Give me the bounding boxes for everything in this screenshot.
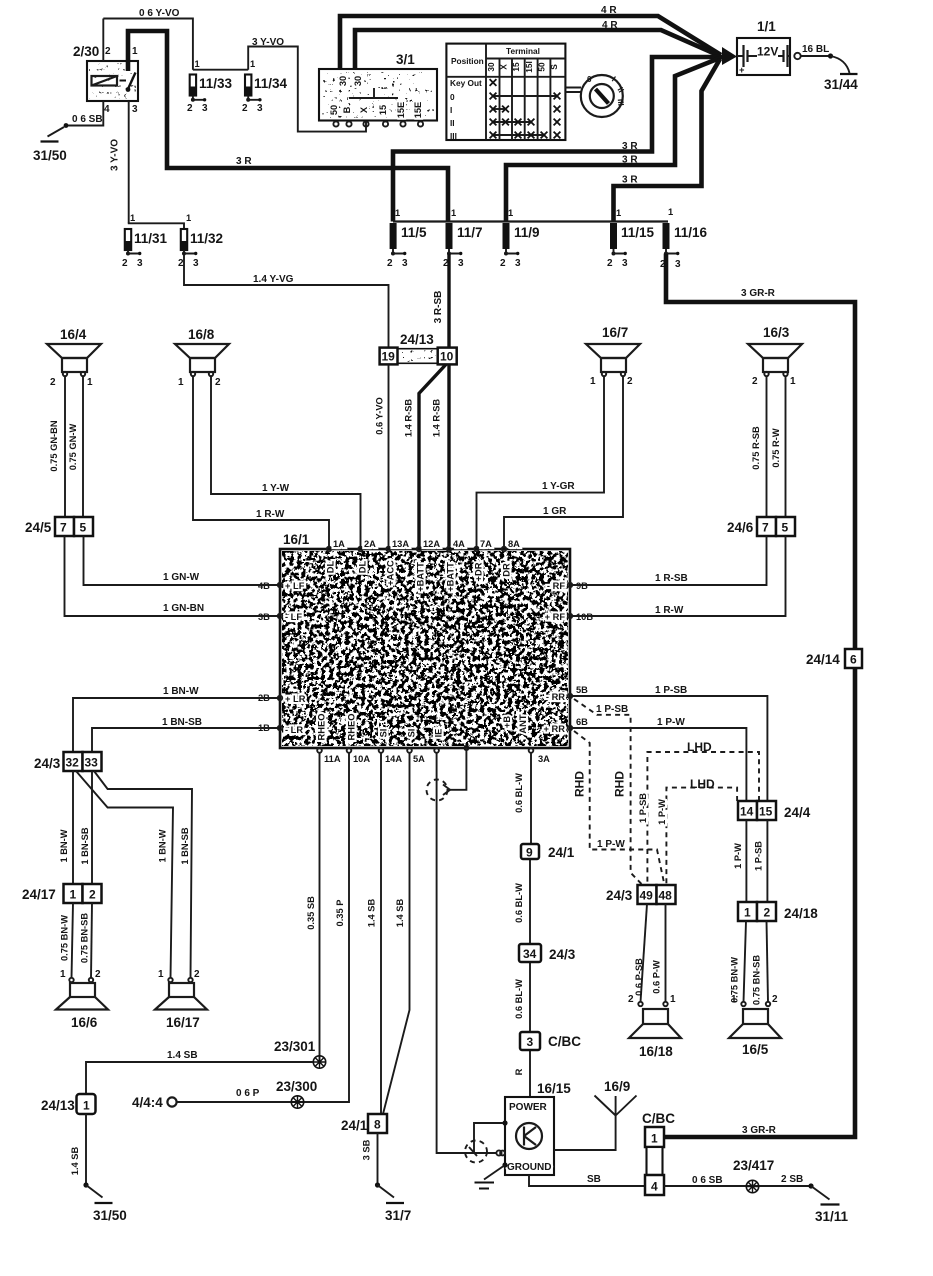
svg-text:1: 1	[731, 994, 737, 1005]
wire aux to power unit	[437, 753, 497, 1153]
svg-text:11A: 11A	[324, 754, 341, 764]
svg-text:4/4:4: 4/4:4	[132, 1095, 163, 1110]
wire 1.4 SB to ground 31/50	[70, 1114, 86, 1185]
svg-text:16/7: 16/7	[602, 325, 628, 340]
fuse 11/9	[500, 208, 540, 269]
wire 3 R third	[614, 59, 721, 222]
svg-text:1: 1	[132, 46, 138, 57]
speaker 16/8	[175, 327, 229, 388]
svg-text:ANT: ANT	[518, 714, 528, 733]
svg-text:3: 3	[675, 259, 681, 270]
svg-text:0.75 GN-W: 0.75 GN-W	[68, 424, 78, 471]
wire 0.75 BN-W to 16/6	[60, 903, 74, 978]
svg-text:3: 3	[527, 1035, 534, 1049]
svg-text:1 GN-W: 1 GN-W	[163, 572, 200, 583]
svg-text:5: 5	[782, 521, 789, 535]
svg-text:1: 1	[790, 376, 796, 387]
svg-text:3: 3	[202, 103, 208, 114]
svg-text:24/3: 24/3	[606, 888, 633, 903]
svg-text:2: 2	[387, 258, 393, 269]
svg-text:1: 1	[186, 213, 191, 223]
ground hook 16/15	[475, 1165, 506, 1189]
antenna 16/9	[554, 1079, 637, 1150]
svg-text:Position: Position	[451, 56, 484, 66]
radio pin 3A	[502, 714, 550, 764]
connector 24/6 pins 7 5	[727, 517, 795, 536]
svg-text:1: 1	[508, 208, 513, 218]
svg-text:1: 1	[451, 208, 456, 218]
wire 1.4 Y-VG	[184, 254, 389, 348]
svg-text:7A: 7A	[480, 539, 492, 549]
wire 3 Y-VO top	[248, 37, 366, 132]
svg-text:10B: 10B	[576, 612, 593, 622]
wire 3 R-SB fuse 11/7 down	[433, 254, 449, 348]
svg-text:1 BN-W: 1 BN-W	[163, 686, 199, 697]
svg-text:10: 10	[440, 350, 454, 364]
svg-text:X: X	[499, 64, 509, 70]
wire 1.4 SB from 14A	[367, 753, 382, 1114]
radio pin 10A	[347, 714, 371, 764]
svg-text:1: 1	[670, 994, 676, 1005]
svg-text:3A: 3A	[538, 754, 550, 764]
svg-text:24/13: 24/13	[41, 1098, 75, 1113]
svg-text:16/4: 16/4	[60, 327, 87, 342]
svg-text:2: 2	[500, 258, 506, 269]
wire 0.6 Y-VO	[103, 8, 193, 70]
svg-text:2: 2	[242, 103, 248, 114]
svg-text:2: 2	[607, 258, 613, 269]
svg-text:1.4 R-SB: 1.4 R-SB	[432, 399, 442, 438]
wire 0.6 P-SB to 16/18	[634, 904, 647, 1002]
fuse 11/32	[178, 213, 223, 269]
connector 24/13 pins 19 10	[380, 332, 457, 364]
svg-text:2: 2	[95, 969, 101, 980]
svg-text:6: 6	[850, 653, 857, 667]
svg-text:50: 50	[537, 62, 547, 72]
svg-text:0.75 R-SB: 0.75 R-SB	[751, 426, 761, 470]
svg-text:23/301: 23/301	[274, 1039, 316, 1054]
svg-text:1 BN-SB: 1 BN-SB	[180, 827, 190, 864]
svg-text:8: 8	[374, 1118, 381, 1132]
radio pin 14A	[379, 729, 403, 764]
svg-text:- LR: - LR	[285, 725, 303, 735]
svg-text:GROUND: GROUND	[507, 1162, 551, 1173]
svg-text:2: 2	[628, 994, 634, 1005]
svg-text:2: 2	[89, 888, 96, 902]
connector 24/5 pins 7 5	[25, 517, 93, 536]
radio pin 8A	[502, 539, 521, 577]
svg-text:2A: 2A	[364, 539, 376, 549]
svg-text:0: 0	[450, 92, 455, 102]
svg-text:C/BC: C/BC	[548, 1034, 581, 1049]
svg-text:+BATT: +BATT	[416, 562, 426, 592]
svg-text:15: 15	[378, 105, 388, 115]
speaker 16/6	[56, 969, 108, 1030]
radio pin 3B	[258, 612, 302, 622]
svg-text:- RF: - RF	[547, 581, 565, 591]
svg-text:11/5: 11/5	[401, 225, 427, 240]
svg-text:3 GR-R: 3 GR-R	[741, 288, 776, 299]
wire 4 R lower	[355, 20, 720, 69]
wire 4 R upper	[340, 5, 721, 69]
wire LHD dashed lower	[657, 777, 737, 885]
wire 1 BN-W left	[73, 686, 280, 752]
svg-text:Terminal: Terminal	[506, 46, 540, 56]
wire 0.6 SB relay pin4	[64, 101, 104, 128]
svg-text:0 6 SB: 0 6 SB	[692, 1175, 723, 1186]
wire 1 Y-W	[211, 376, 361, 549]
svg-text:+BATT: +BATT	[446, 562, 456, 592]
svg-text:1 P-W: 1 P-W	[657, 717, 685, 728]
svg-text:1: 1	[395, 208, 400, 218]
svg-text:2: 2	[215, 377, 221, 388]
svg-text:16/5: 16/5	[742, 1042, 769, 1057]
svg-text:1: 1	[130, 213, 135, 223]
svg-text:31/44: 31/44	[824, 77, 858, 92]
svg-text:1.4 Y-VG: 1.4 Y-VG	[253, 274, 294, 285]
svg-text:30: 30	[353, 76, 363, 86]
svg-text:0.75 BN-SB: 0.75 BN-SB	[752, 955, 762, 1005]
svg-text:1: 1	[60, 969, 66, 980]
svg-text:2: 2	[122, 258, 128, 269]
wire 1 BN-SB to 24/17 pin2	[80, 771, 92, 884]
svg-text:2: 2	[194, 969, 200, 980]
svg-text:50: 50	[329, 105, 339, 115]
fuse 11/7	[443, 208, 483, 269]
connector 24/13 pin	[41, 1094, 96, 1114]
svg-text:13A: 13A	[392, 539, 409, 549]
fuse 11/5	[387, 208, 427, 269]
svg-text:+ACC: +ACC	[386, 560, 396, 586]
svg-text:3 R: 3 R	[622, 155, 638, 166]
svg-text:3B: 3B	[258, 612, 270, 622]
svg-text:16/15: 16/15	[537, 1081, 571, 1096]
svg-text:33: 33	[85, 756, 99, 770]
svg-text:24/1: 24/1	[341, 1118, 368, 1133]
wire 1 Y-GR	[477, 376, 605, 549]
svg-text:0.6 BL-W: 0.6 BL-W	[514, 883, 524, 923]
wire 1 GN-BN	[65, 536, 281, 616]
svg-text:15: 15	[759, 805, 773, 819]
svg-text:1.4 SB: 1.4 SB	[167, 1050, 198, 1061]
svg-text:1: 1	[195, 59, 200, 69]
wire RHD dashed from 6B	[573, 731, 665, 885]
fuse 11/33	[187, 59, 233, 114]
ignition position table	[446, 44, 565, 141]
wire 3 SB to ground 31/7	[362, 1133, 378, 1185]
svg-text:II: II	[450, 118, 455, 128]
wire 0.35 P from 10A	[177, 753, 349, 1102]
wire 11/33 to 11/34	[193, 69, 248, 71]
svg-text:LHD: LHD	[690, 777, 715, 791]
wire 1 GR	[504, 376, 623, 549]
svg-text:11/9: 11/9	[514, 225, 540, 240]
wire 1 BN-W to 24/17 pin1	[59, 771, 73, 884]
svg-text:5A: 5A	[413, 754, 425, 764]
wire 1.4 R-SB diagonal to 12A	[404, 364, 447, 549]
svg-text:3 Y-VO: 3 Y-VO	[110, 139, 121, 171]
speaker 16/7	[586, 325, 640, 387]
svg-text:2/30: 2/30	[73, 44, 99, 59]
speaker 16/5	[729, 994, 781, 1057]
svg-text:5: 5	[80, 521, 87, 535]
svg-text:3 R: 3 R	[622, 175, 638, 186]
wire power pin bracket	[474, 1123, 503, 1153]
wire SB power ground to C/BC 4	[529, 1174, 645, 1186]
svg-text:1 R-SB: 1 R-SB	[655, 573, 688, 584]
svg-text:4B: 4B	[258, 581, 270, 591]
svg-text:1 BN-W: 1 BN-W	[59, 829, 69, 862]
ground 31/50 top	[33, 127, 67, 163]
connector 24/17 pins 1 2	[22, 884, 102, 903]
svg-text:12A: 12A	[423, 539, 440, 549]
wire 1 BN-SB branch to 16/17	[94, 771, 192, 978]
svg-text:RHEO: RHEO	[317, 714, 327, 741]
svg-text:1: 1	[744, 906, 751, 920]
splice 23/300	[276, 1079, 317, 1108]
svg-text:1 P-W: 1 P-W	[733, 843, 743, 869]
svg-text:30: 30	[486, 62, 496, 72]
svg-text:4: 4	[651, 1180, 658, 1194]
svg-text:1 P-W: 1 P-W	[657, 799, 667, 825]
wire 0.35 SB from 11A	[306, 753, 320, 1062]
radio pin 12A	[416, 539, 441, 592]
wire 1 BN-SB left	[92, 717, 280, 752]
fuse 11/34	[242, 59, 288, 114]
svg-text:11/33: 11/33	[199, 76, 233, 91]
inline connector dashed circle	[465, 1141, 487, 1163]
radio pin 7A	[474, 539, 493, 581]
svg-text:32: 32	[66, 756, 80, 770]
svg-text:Key Out: Key Out	[450, 78, 482, 88]
wire 0.75 BN-SB to 16/6	[80, 903, 93, 978]
svg-text:1 P-SB: 1 P-SB	[754, 841, 764, 871]
svg-text:4: 4	[104, 104, 110, 115]
wire 3 R first	[393, 57, 722, 222]
svg-text:3: 3	[458, 258, 464, 269]
svg-text:16/17: 16/17	[166, 1015, 200, 1030]
svg-text:31/50: 31/50	[93, 1208, 127, 1223]
connector 24/3 pin 34	[519, 944, 576, 962]
svg-text:B: B	[342, 106, 352, 113]
svg-text:15: 15	[511, 62, 521, 72]
ignition switch 3/1	[319, 52, 437, 127]
wire 0.75 R-SB	[751, 376, 767, 517]
connector 24/14 pin 6	[806, 649, 862, 668]
wire 1 P-W solid	[570, 717, 746, 801]
svg-text:+ RR: + RR	[544, 724, 566, 734]
svg-text:+ LF: + LF	[285, 581, 305, 591]
svg-text:3 SB: 3 SB	[362, 1139, 372, 1160]
wire 0.75 GN-W	[68, 376, 83, 517]
wire 1 P-W to 24/18	[733, 820, 746, 902]
svg-text:15I: 15I	[524, 61, 534, 73]
wire 1.4 SB from 5A	[383, 753, 410, 1114]
connector 24/3 pins 49 48	[606, 885, 676, 904]
svg-text:+ RF: + RF	[545, 612, 566, 622]
svg-text:8A: 8A	[508, 539, 520, 549]
svg-text:24/1: 24/1	[548, 845, 575, 860]
svg-text:RHEO: RHEO	[347, 714, 357, 741]
svg-text:7: 7	[60, 521, 67, 535]
connector 24/4 pins 14 15	[738, 801, 811, 820]
ground 31/11	[808, 1183, 848, 1224]
svg-text:III: III	[616, 98, 627, 106]
speaker 16/4	[47, 327, 101, 388]
svg-text:1 R-W: 1 R-W	[655, 605, 684, 616]
svg-text:14A: 14A	[385, 754, 402, 764]
radio unit 16/1	[280, 532, 570, 748]
svg-text:31/50: 31/50	[33, 148, 67, 163]
wire 3 GR-R from fuse 11/16	[664, 254, 855, 1138]
svg-text:5B: 5B	[576, 685, 588, 695]
wire RHD dashed from 5B	[574, 699, 643, 885]
svg-text:1/1: 1/1	[757, 19, 776, 34]
svg-text:DL: DL	[326, 560, 336, 573]
battery 1/1	[722, 19, 790, 75]
svg-text:3: 3	[402, 258, 408, 269]
svg-text:2: 2	[187, 103, 193, 114]
wire 16 BL battery to ground	[794, 44, 849, 73]
svg-text:6B: 6B	[576, 717, 588, 727]
svg-text:11/16: 11/16	[674, 225, 708, 240]
fuse 11/16	[660, 207, 708, 270]
svg-text:S: S	[549, 64, 559, 70]
svg-text:+B: +B	[502, 716, 512, 728]
wire 0.6 BL-W from 3A	[514, 753, 531, 1097]
svg-text:0.75 GN-BN: 0.75 GN-BN	[49, 420, 59, 471]
svg-text:X: X	[359, 106, 369, 113]
svg-text:1.4 SB: 1.4 SB	[70, 1147, 80, 1176]
svg-text:1: 1	[616, 208, 621, 218]
radio pin 5B	[546, 685, 588, 702]
svg-text:1 Y-GR: 1 Y-GR	[542, 481, 575, 492]
connector 24/1 pin 9	[521, 844, 575, 860]
wire 0.6 Y-VO to 13A	[375, 364, 389, 549]
wire 1.4 R-SB to 4A	[432, 364, 450, 549]
svg-text:11/32: 11/32	[190, 231, 223, 246]
svg-text:3 R: 3 R	[236, 156, 252, 167]
svg-text:1: 1	[87, 377, 93, 388]
svg-text:0 6 P: 0 6 P	[236, 1088, 260, 1099]
svg-text:3 Y-VO: 3 Y-VO	[252, 37, 284, 48]
wire 0.75 R-W	[771, 376, 786, 517]
radio pin 9B	[547, 581, 588, 591]
svg-text:16/1: 16/1	[283, 532, 310, 547]
speaker 16/18	[628, 994, 681, 1059]
wire 3 Y-VO relay pin3 down	[110, 101, 129, 223]
svg-text:0.6 P-SB: 0.6 P-SB	[634, 958, 644, 996]
connector C/BC pins 1 4	[642, 1111, 675, 1195]
ground 31/7	[375, 1182, 411, 1223]
splice 23/417	[733, 1158, 774, 1193]
svg-text:24/3: 24/3	[549, 947, 576, 962]
fuse bus	[393, 220, 668, 222]
svg-text:0.6 P-W: 0.6 P-W	[652, 960, 662, 994]
radio pin 13A	[386, 539, 410, 586]
svg-text:3: 3	[515, 258, 521, 269]
wire 1 R-SB right	[570, 536, 767, 585]
svg-text:1: 1	[590, 376, 596, 387]
svg-text:4 R: 4 R	[601, 5, 617, 16]
svg-text:1 Y-W: 1 Y-W	[262, 483, 290, 494]
svg-text:49: 49	[640, 889, 654, 903]
svg-text:24/5: 24/5	[25, 520, 52, 535]
svg-text:1.4 R-SB: 1.4 R-SB	[404, 399, 414, 438]
svg-text:1 GN-BN: 1 GN-BN	[163, 603, 204, 614]
svg-text:1: 1	[178, 377, 184, 388]
svg-text:24/18: 24/18	[784, 906, 818, 921]
svg-text:1 BN-SB: 1 BN-SB	[80, 827, 90, 864]
svg-text:RHD: RHD	[613, 771, 627, 797]
svg-text:2: 2	[105, 46, 111, 57]
radio pin 2A	[358, 539, 377, 573]
svg-text:SB: SB	[587, 1174, 601, 1185]
svg-text:11/15: 11/15	[621, 225, 655, 240]
svg-text:24/13: 24/13	[400, 332, 434, 347]
svg-text:2: 2	[772, 994, 778, 1005]
svg-text:1.4 SB: 1.4 SB	[367, 899, 377, 928]
svg-text:0.75 R-W: 0.75 R-W	[771, 428, 781, 467]
svg-text:1 P-SB: 1 P-SB	[638, 793, 648, 823]
svg-text:24/17: 24/17	[22, 887, 56, 902]
wire 0.75 BN-SB to 16/5	[752, 921, 769, 1005]
svg-text:C/BC: C/BC	[642, 1111, 675, 1126]
svg-text:24/14: 24/14	[806, 652, 840, 667]
fuse 11/15	[607, 208, 655, 269]
svg-text:LHD: LHD	[687, 740, 712, 754]
svg-text:1: 1	[651, 1132, 658, 1146]
svg-text:POWER: POWER	[509, 1102, 548, 1113]
wire 0.6 SB / 2 SB to ground 31/11	[664, 1174, 811, 1186]
speaker 16/17	[155, 969, 207, 1030]
svg-text:1 BN-W: 1 BN-W	[158, 829, 168, 862]
svg-text:4A: 4A	[453, 539, 465, 549]
svg-text:48: 48	[659, 889, 673, 903]
svg-text:0 6 Y-VO: 0 6 Y-VO	[139, 8, 180, 19]
svg-text:11/31: 11/31	[134, 231, 168, 246]
svg-text:16/3: 16/3	[763, 325, 790, 340]
svg-text:+DR: +DR	[474, 562, 484, 581]
connector 24/3 pins 32 33	[34, 752, 102, 771]
svg-text:3: 3	[622, 258, 628, 269]
radio pin 6B	[544, 717, 589, 734]
key switch dial	[565, 74, 626, 117]
svg-text:1 P-W: 1 P-W	[597, 839, 625, 850]
ground 31/50 bottom	[83, 1182, 126, 1223]
relay 2/30	[73, 44, 138, 115]
svg-text:3 R: 3 R	[622, 141, 638, 152]
svg-text:30: 30	[338, 76, 348, 86]
radio pin 11A	[317, 714, 341, 764]
wire 1 P-SB to 24/18	[754, 820, 768, 902]
radio pin 4A	[446, 539, 466, 592]
wire 11/31 to 11/32 link	[128, 223, 184, 229]
svg-text:0.6 BL-W: 0.6 BL-W	[514, 979, 524, 1019]
svg-text:15E: 15E	[396, 102, 406, 119]
radio pin 1B	[258, 723, 303, 735]
svg-text:2: 2	[50, 377, 56, 388]
wire relay pin 2 riser	[102, 19, 104, 62]
svg-text:2 SB: 2 SB	[781, 1174, 803, 1185]
svg-text:3: 3	[137, 258, 143, 269]
fuse 11/31	[122, 213, 168, 269]
svg-text:1 P-SB: 1 P-SB	[655, 685, 687, 696]
radio pin 2B	[258, 693, 306, 704]
speaker 16/3	[748, 325, 802, 387]
svg-text:34: 34	[523, 947, 537, 961]
svg-text:1.4 SB: 1.4 SB	[395, 899, 405, 928]
